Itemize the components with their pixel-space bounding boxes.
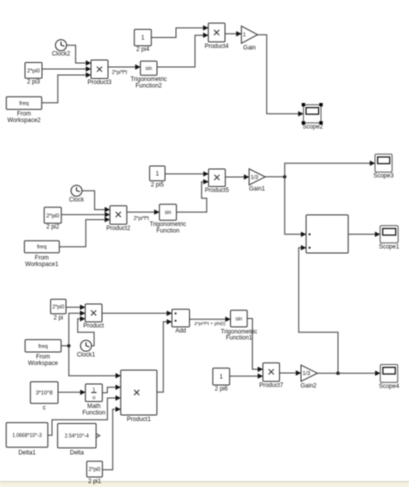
svg-text:1/3: 1/3 xyxy=(251,175,259,181)
constant 2 pi4 value 1 xyxy=(134,29,151,53)
svg-text:Gain2: Gain2 xyxy=(300,384,317,390)
svg-text:From: From xyxy=(17,112,31,118)
svg-text:2 pi2: 2 pi2 xyxy=(46,225,60,231)
constant 2 pi1 value 2*pi0 xyxy=(87,461,103,485)
svg-text:From: From xyxy=(35,255,49,261)
constant c value 3*10^8 xyxy=(30,382,58,412)
wire Clock to Product2 in1 xyxy=(82,191,110,213)
wire Clock2 to Product3 in1 xyxy=(67,45,91,65)
wire Product3 to Trigonometric Function2 xyxy=(108,64,140,69)
scope Scope2 (selected) xyxy=(302,103,324,131)
svg-text:Trigonometric: Trigonometric xyxy=(130,77,166,83)
from-workspace From Workspace freq xyxy=(25,340,61,367)
wire Gain to Scope2 xyxy=(258,35,304,117)
wire freq to junction xyxy=(61,345,69,347)
constant 2 pi6 value 1 xyxy=(213,368,230,393)
wire junction down to Product6 in1 xyxy=(285,177,306,237)
product Product1 (large) xyxy=(121,370,157,423)
svg-text:2*pi0: 2*pi0 xyxy=(89,467,101,473)
svg-text:2*pi*f*t: 2*pi*f*t xyxy=(112,70,128,76)
clock Clock2 xyxy=(52,40,71,58)
svg-text:Function1: Function1 xyxy=(226,336,253,342)
svg-text:Math: Math xyxy=(87,404,100,410)
wire Delta1 to Product1 in3 xyxy=(48,395,121,435)
svg-text:Product4: Product4 xyxy=(205,44,230,50)
wire Gain2 to junction xyxy=(317,372,338,374)
constant Delta value 2.54*10^-4 xyxy=(58,424,97,457)
trig function Trigonometric Function1 sin xyxy=(221,310,257,341)
wire 2 pi to Product in1 xyxy=(66,305,85,310)
svg-text:freq: freq xyxy=(38,344,47,350)
svg-text:Delta1: Delta1 xyxy=(18,451,36,457)
window bottom edge strip xyxy=(0,481,409,487)
product Product5 xyxy=(205,169,230,194)
svg-text:Workspace1: Workspace1 xyxy=(25,262,59,268)
wire Gain1 to junction xyxy=(265,176,285,178)
svg-text:1: 1 xyxy=(243,33,246,39)
signal label 2*pi*f*t + phi(t) xyxy=(194,321,225,327)
svg-text:Function2: Function2 xyxy=(136,83,163,89)
svg-text:Product1: Product1 xyxy=(127,417,152,423)
svg-text:2 pi3: 2 pi3 xyxy=(27,79,41,85)
constant 2 pi2 value 2*pi0 xyxy=(44,207,61,230)
signal label 2*pi*f*t (top) xyxy=(112,70,128,76)
svg-text:Add: Add xyxy=(175,328,186,334)
wire junction up to Scope3 xyxy=(285,161,375,177)
wire Trigonometric Function2 to Product4 in2 xyxy=(157,33,208,68)
svg-text:Clock2: Clock2 xyxy=(52,52,71,58)
svg-text:2*pi*f*t + phi(t): 2*pi*f*t + phi(t) xyxy=(194,321,225,327)
wire junction up to Product6 in2 xyxy=(299,245,338,373)
svg-text:Product3: Product3 xyxy=(87,80,112,86)
wire Product4 to Gain xyxy=(225,31,241,36)
clock Clock1 xyxy=(77,340,96,358)
wire freq to Product3 in3 xyxy=(42,72,91,103)
wire Trigonometric Function to Product5 in2 xyxy=(176,179,208,212)
product Product7 xyxy=(259,363,284,389)
svg-text:Trigonometric: Trigonometric xyxy=(221,329,257,335)
svg-text:c: c xyxy=(43,405,46,411)
product Product2 xyxy=(106,206,131,232)
junction at Gain1 output xyxy=(283,175,286,178)
sum Add xyxy=(172,309,190,334)
scope Scope3 xyxy=(373,154,394,179)
math function Math Function 1/u xyxy=(82,384,105,416)
svg-text:2*pi0: 2*pi0 xyxy=(52,304,64,310)
svg-text:Product5: Product5 xyxy=(205,188,230,194)
svg-text:Gain1: Gain1 xyxy=(249,187,266,193)
constant 2 pi3 value 2*pi0 xyxy=(25,63,42,86)
trig function Trigonometric Function2 sin xyxy=(130,61,166,89)
constant 2 pi5 value 1 xyxy=(150,166,165,189)
junction at Gain2 output xyxy=(336,372,339,375)
wire 2 pi6 to Product7 in2 xyxy=(230,373,263,378)
product Product4 xyxy=(205,23,230,50)
svg-text:Trigonometric: Trigonometric xyxy=(150,222,186,228)
scope Scope1 xyxy=(379,226,400,251)
wire 2 pi5 to Product5 in1 xyxy=(165,171,209,176)
wire Product2 to Trigonometric Function xyxy=(127,209,160,214)
svg-text:u: u xyxy=(93,395,96,401)
svg-text:Function: Function xyxy=(82,410,105,416)
svg-text:Product2: Product2 xyxy=(106,226,131,232)
svg-text:2 pi1: 2 pi1 xyxy=(88,479,102,485)
clock Clock xyxy=(69,185,85,203)
svg-text:sin: sin xyxy=(235,317,242,323)
wire Product to Add in1 xyxy=(102,311,172,316)
svg-text:2 pi6: 2 pi6 xyxy=(215,387,229,393)
svg-text:Product: Product xyxy=(83,324,104,330)
scope Scope4 xyxy=(379,365,400,390)
svg-text:sin: sin xyxy=(165,210,172,216)
svg-text:2*pi0: 2*pi0 xyxy=(27,68,40,74)
svg-text:Function: Function xyxy=(156,229,179,235)
svg-text:Scope2: Scope2 xyxy=(303,125,324,131)
wire Product1 to Add in2 xyxy=(157,319,172,392)
wire freq to Product2 in3 xyxy=(59,217,110,247)
wire junction up to Product in2 xyxy=(69,311,85,346)
gain Gain1 value 1/3 xyxy=(249,169,266,193)
junction at From Workspace output xyxy=(67,344,70,347)
svg-text:1.0668*10^-3: 1.0668*10^-3 xyxy=(12,433,42,439)
product Product6 (large) xyxy=(306,215,348,253)
wire Product6 to Scope1 xyxy=(348,232,380,237)
svg-text:3*10^8: 3*10^8 xyxy=(36,391,53,397)
port unconnected Delta output xyxy=(96,434,100,438)
svg-text:Product7: Product7 xyxy=(259,383,284,389)
svg-text:Workspace: Workspace xyxy=(28,361,59,367)
svg-text:From: From xyxy=(36,354,50,360)
trig function Trigonometric Function sin xyxy=(150,204,186,234)
wire 2 pi4 to Product4 in1 xyxy=(151,25,208,37)
svg-text:freq: freq xyxy=(37,245,46,251)
svg-text:Workspace2: Workspace2 xyxy=(7,118,41,124)
svg-text:2 pi5: 2 pi5 xyxy=(151,183,165,189)
svg-text:sin: sin xyxy=(145,66,152,72)
from-workspace From Workspace2 freq xyxy=(6,97,41,124)
wire Product7 to Gain2 xyxy=(280,370,302,375)
svg-text:Gain: Gain xyxy=(243,46,256,52)
wire Clock1 to Product in3 xyxy=(78,316,94,346)
wire Product5 to Gain1 xyxy=(225,174,249,179)
wire 2 pi3 to Product3 in2 xyxy=(42,66,91,71)
gain Gain value 1 xyxy=(241,26,257,51)
svg-text:Clock1: Clock1 xyxy=(77,353,96,359)
from-workspace From Workspace1 freq xyxy=(24,241,59,268)
svg-text:Scope4: Scope4 xyxy=(379,384,400,390)
wire junction to Scope4 xyxy=(338,371,380,376)
product Product xyxy=(83,304,104,330)
svg-text:freq: freq xyxy=(19,101,28,107)
svg-text:Scope1: Scope1 xyxy=(379,244,400,250)
svg-text:Clock: Clock xyxy=(69,197,85,203)
constant 2 pi value 2*pi0 xyxy=(51,299,66,322)
signal label 2*pi*f*t (middle) xyxy=(134,216,150,222)
svg-text:Delta: Delta xyxy=(70,451,85,457)
product Product3 xyxy=(87,60,112,86)
svg-text:2*pi0: 2*pi0 xyxy=(46,213,59,219)
gain Gain2 value 1/3 xyxy=(300,365,317,390)
wire Trigonometric Function1 to Product7 in1 xyxy=(247,319,263,373)
svg-text:1/3: 1/3 xyxy=(303,371,311,377)
svg-text:2*pi*f*t: 2*pi*f*t xyxy=(134,216,150,222)
svg-text:2 pi: 2 pi xyxy=(53,316,63,322)
wire 2 pi2 to Product2 in2 xyxy=(61,212,110,217)
constant Delta1 value 1.0668*10^-3 xyxy=(6,423,48,457)
svg-text:Scope3: Scope3 xyxy=(373,174,394,180)
svg-text:2 pi4: 2 pi4 xyxy=(136,47,150,53)
svg-text:2.54*10^-4: 2.54*10^-4 xyxy=(65,434,89,440)
wire 2 pi1 to Product1 in4 xyxy=(102,407,120,470)
wire Add to Trigonometric Function1 xyxy=(190,317,231,322)
wire Math Function to Product1 in2 xyxy=(102,385,120,393)
wire c to Math Function xyxy=(58,390,85,395)
wire junction down to Product1 in1 xyxy=(69,346,121,379)
